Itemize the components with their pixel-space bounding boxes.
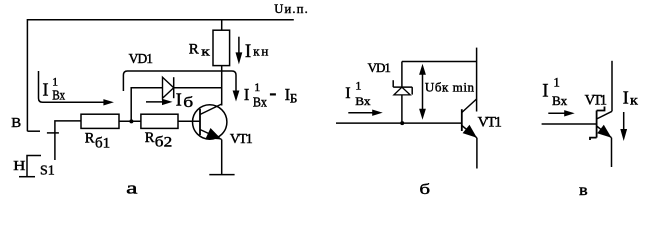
svg-text:кн: кн: [253, 44, 270, 59]
svg-text:а: а: [126, 178, 138, 197]
svg-text:VT1: VT1: [478, 114, 502, 130]
svg-text:S1: S1: [40, 164, 55, 179]
svg-text:Вх: Вх: [52, 87, 65, 102]
svg-text:б2: б2: [155, 135, 172, 151]
svg-text:I: I: [244, 85, 250, 104]
svg-text:Вх: Вх: [355, 95, 371, 108]
svg-text:R: R: [145, 130, 155, 146]
svg-text:VD1: VD1: [129, 51, 153, 66]
svg-text:R: R: [189, 42, 199, 58]
svg-text:VT1: VT1: [585, 92, 607, 108]
svg-text:б1: б1: [95, 136, 110, 152]
svg-text:I: I: [623, 88, 629, 108]
svg-text:1: 1: [553, 75, 560, 90]
svg-text:I: I: [345, 85, 350, 102]
svg-text:Б: Б: [290, 90, 297, 105]
svg-text:I: I: [43, 80, 49, 100]
svg-text:R: R: [85, 131, 95, 147]
svg-text:I: I: [176, 90, 182, 110]
svg-text:к: к: [201, 45, 210, 59]
svg-text:Вх: Вх: [253, 95, 268, 110]
svg-text:VD1: VD1: [368, 60, 391, 75]
svg-text:Вх: Вх: [552, 94, 568, 108]
svg-text:к: к: [630, 93, 639, 108]
svg-text:В: В: [11, 116, 21, 131]
svg-text:I: I: [542, 81, 548, 102]
svg-text:1: 1: [254, 80, 260, 94]
svg-text:1: 1: [355, 78, 361, 92]
svg-text:б: б: [419, 181, 430, 197]
svg-text:Uи.п.: Uи.п.: [274, 2, 309, 16]
svg-text:б: б: [183, 94, 193, 110]
svg-text:в: в: [579, 181, 588, 199]
svg-text:Н: Н: [13, 158, 25, 173]
svg-text:VT1: VT1: [230, 132, 253, 147]
svg-text:I: I: [245, 41, 251, 62]
svg-text:Uбк min: Uбк min: [425, 80, 475, 95]
